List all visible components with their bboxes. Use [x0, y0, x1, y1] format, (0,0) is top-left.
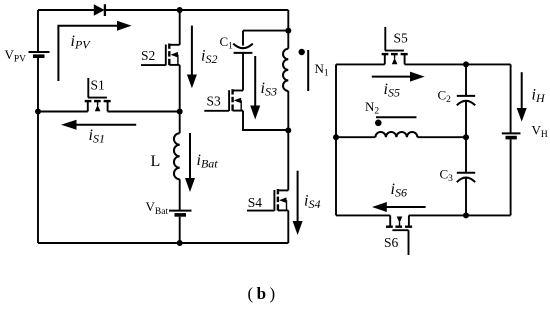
inductor winding N2 — [375, 132, 417, 137]
capacitor C3 — [457, 173, 475, 216]
svg-text:VPV: VPV — [5, 47, 27, 65]
wire C2 top — [465, 64, 467, 95]
svg-text:N2: N2 — [365, 99, 379, 117]
svg-text:( b ): ( b ) — [248, 284, 276, 303]
arrow i_S4 — [293, 171, 303, 235]
wire N2 right — [417, 136, 466, 138]
wire right circuit left edge — [335, 64, 337, 215]
node junction V_PV / mid rail — [35, 109, 41, 115]
wire S3 source down and to junction — [243, 111, 288, 130]
arrow i_S1 — [61, 120, 136, 130]
wire N1 top — [287, 31, 289, 49]
svg-text:iS5: iS5 — [384, 81, 400, 100]
arrow i_S6 — [372, 202, 426, 212]
node junction C2 / top rail — [463, 61, 469, 67]
svg-text:C1: C1 — [220, 34, 234, 52]
polarity dot N2 — [375, 120, 382, 127]
node junction N2 / C2 branch — [463, 134, 469, 140]
wire S4 source down — [287, 210, 289, 243]
transistor S4 — [247, 189, 288, 211]
wire top-right corner down to C1 node — [287, 10, 289, 31]
wire bottom rail — [38, 242, 288, 244]
arrow i_S2 — [187, 26, 197, 89]
node junction S2 drain / top rail — [177, 7, 183, 13]
wire right circuit bottom rail left — [336, 214, 390, 216]
wire top rail left segment — [38, 9, 94, 11]
wire N2 left — [336, 136, 375, 138]
svg-text:iPV: iPV — [71, 33, 92, 52]
wire right edge top — [510, 64, 512, 133]
node junction V_Bat / bottom rail — [177, 240, 183, 246]
battery V_PV — [29, 52, 50, 56]
wire S2 source — [179, 65, 181, 112]
arrow i_H — [517, 72, 527, 121]
svg-text:VH: VH — [532, 123, 548, 141]
transistor S6 — [386, 215, 412, 255]
transistor S3 — [204, 89, 243, 111]
battery V_H — [502, 133, 521, 215]
svg-text:VBat: VBat — [146, 199, 169, 217]
arrow i_S3 — [250, 56, 260, 120]
transistor S2 — [141, 44, 180, 66]
wire L top to rail junction — [179, 112, 181, 134]
transistor S5 — [382, 27, 408, 64]
wire junction to S4 drain — [287, 130, 289, 190]
arrow i_PV — [58, 21, 131, 81]
node C1 branch junction — [285, 28, 291, 34]
inductor winding N1 — [283, 49, 288, 91]
svg-text:S6: S6 — [384, 235, 399, 250]
wire V_PV top — [37, 10, 39, 52]
svg-text:S2: S2 — [141, 48, 155, 63]
svg-text:S3: S3 — [207, 93, 222, 108]
capacitor C2 — [457, 96, 475, 172]
battery V_Bat — [169, 179, 192, 243]
wire mid rail right of S1 — [108, 111, 180, 113]
core bar N1 — [307, 50, 309, 91]
node junction N1 / S3 / S4 — [285, 127, 291, 133]
wire right circuit bottom rail right — [409, 214, 511, 216]
transistor S1 — [85, 78, 111, 112]
svg-text:iS2: iS2 — [201, 48, 217, 67]
arrow i_Bat — [185, 133, 195, 192]
polarity dot N1 — [299, 49, 305, 55]
svg-text:iS6: iS6 — [391, 181, 407, 200]
svg-text:S4: S4 — [248, 195, 263, 210]
svg-text:S5: S5 — [394, 30, 409, 45]
node junction N2 / left edge — [333, 134, 339, 140]
wire V_PV bottom / left edge — [37, 58, 39, 243]
diode D1 — [94, 4, 105, 16]
svg-text:C3: C3 — [440, 167, 454, 185]
svg-text:S1: S1 — [91, 78, 105, 93]
svg-text:N1: N1 — [315, 61, 329, 79]
arrow i_S5 — [372, 72, 425, 82]
core bar N2 — [376, 116, 417, 118]
wire mid rail left of S1 — [38, 111, 88, 113]
wire right circuit top rail left — [336, 63, 385, 65]
node junction C3 / bottom rail — [463, 212, 469, 218]
svg-text:C2: C2 — [438, 88, 452, 106]
wire N1 bottom to junction — [287, 91, 289, 130]
node junction S2 source / S1 rail / L — [177, 109, 183, 115]
wire C1 branch horizontal — [243, 30, 288, 32]
svg-text:L: L — [151, 153, 161, 170]
svg-text:iS1: iS1 — [89, 127, 105, 146]
svg-text:iS4: iS4 — [304, 193, 320, 212]
svg-text:iS3: iS3 — [261, 80, 277, 99]
wire S2 drain — [179, 10, 181, 45]
svg-text:iBat: iBat — [197, 152, 219, 171]
svg-text:iH: iH — [532, 87, 546, 106]
wire top rail right segment — [105, 9, 288, 11]
wire right circuit top rail right — [405, 63, 511, 65]
inductor L — [174, 133, 180, 179]
capacitor C1 — [233, 31, 253, 91]
